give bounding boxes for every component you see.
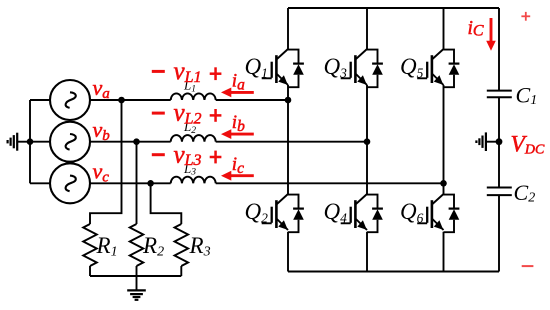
junction: leg 2 phase b node [364, 138, 371, 145]
wire: resistor bottom bus [90, 275, 181, 277]
wire: DC top rail [288, 7, 499, 9]
wire: leg 1 collector lead Q1 [287, 8, 289, 49]
current arrow ic [230, 174, 254, 177]
wire: left bus vertical [29, 100, 31, 183]
wire: phase b from source to L2 [90, 141, 171, 143]
resistor R1 [83, 224, 97, 266]
wire: phase a from source to L1 [90, 99, 171, 101]
wire: phase c tap down to R3 [151, 183, 182, 224]
node VDC (DC midpoint junction) [496, 138, 503, 145]
wire: phase a tap down to R1 [90, 100, 122, 224]
AC voltage source va [50, 80, 90, 120]
current arrow ia [230, 91, 254, 94]
wire: leg 2 midsection [366, 85, 368, 194]
wire: right rail mid (C1 to C2) [498, 97, 500, 187]
wire: right rail upper (top rail to C1) [498, 8, 500, 91]
wire: phase a from L1 to bridge leg [216, 99, 288, 101]
current arrow iC [490, 18, 493, 43]
wire: right rail lower (C2 to bottom rail) [498, 195, 500, 271]
transistor Q5 (IGBT with freewheeling diode) [417, 49, 459, 87]
wire: leg 3 midsection [443, 85, 445, 194]
wire: phase c from source to L3 [90, 182, 171, 184]
junction: phase b / R2 tap [133, 138, 140, 145]
wire: leg 2 Q4 emitter to bottom rail [366, 232, 368, 272]
wire: leg 1 Q2 emitter to bottom rail [287, 232, 289, 272]
transistor Q4 (IGBT with freewheeling diode) [341, 194, 383, 232]
junction: left bus / ground node [27, 138, 34, 145]
transistor Q6 (IGBT with freewheeling diode) [417, 194, 459, 232]
terminal + (DC positive) [521, 12, 530, 21]
transistor Q2 (IGBT with freewheeling diode) [262, 194, 304, 232]
wire: bus to source vc [30, 182, 50, 184]
capacitor C1 [487, 91, 512, 98]
terminal - (DC negative) [522, 265, 534, 267]
ground (left, neutral of sources) [8, 133, 30, 151]
wire: bus to source va [30, 99, 50, 101]
voltage label - vL1 + [152, 58, 222, 86]
resistor R2 [130, 224, 144, 266]
transistor Q3 (IGBT with freewheeling diode) [341, 49, 383, 87]
junction: phase a / R1 tap [118, 97, 125, 104]
inductor L3 [171, 177, 216, 184]
wire: leg 3 Q6 emitter to bottom rail [443, 232, 445, 272]
AC voltage source vb [50, 122, 90, 162]
ground (bottom, star point) [127, 290, 146, 299]
capacitor C2 [487, 188, 512, 196]
ground (DC midpoint) [476, 132, 499, 151]
junction: phase c / R3 tap [147, 180, 154, 187]
wire: bus to ground stem [136, 276, 138, 290]
wire: phase c from L3 to bridge leg [216, 182, 444, 184]
wire: leg 1 midsection (Q1 emitter to Q2 collector) [287, 85, 289, 194]
inductor L2 [171, 135, 216, 142]
wire: bus to source vb [30, 141, 50, 143]
AC voltage source vc [50, 163, 90, 203]
wire: R2 to bottom bus [136, 266, 138, 276]
wire: phase b from L2 to bridge leg [216, 141, 367, 143]
transistor Q1 (IGBT with freewheeling diode) [262, 49, 304, 87]
resistor R3 [175, 224, 189, 266]
junction: leg 1 phase a node [285, 97, 292, 104]
wire: R3 to bottom bus [180, 266, 182, 276]
wire: phase b tap down to R2 [136, 142, 138, 224]
wire: R1 to bottom bus [89, 266, 91, 276]
current arrow ib [230, 133, 254, 136]
voltage label - vL3 + [152, 141, 222, 169]
junction: leg 3 phase c node [440, 180, 447, 187]
voltage label - vL2 + [152, 100, 222, 128]
inductor L1 [171, 93, 216, 100]
wire: DC bottom rail [288, 271, 499, 273]
wire: leg 3 collector lead Q5 [443, 8, 445, 49]
wire: leg 2 collector lead Q3 [366, 8, 368, 49]
